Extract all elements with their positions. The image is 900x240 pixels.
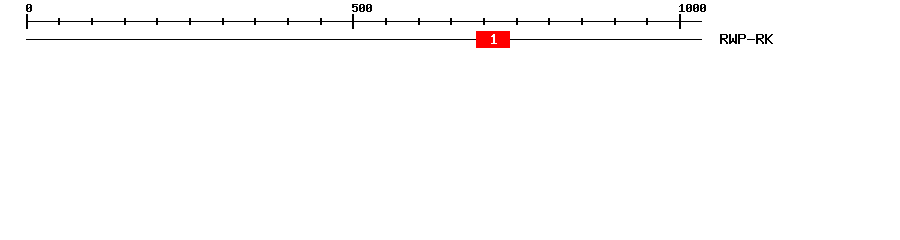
- ruler label 1000: [679, 4, 706, 12]
- ruler major tick 0: [26, 14, 28, 29]
- ruler minor tick 300: [222, 18, 224, 25]
- domain box number 1: [491, 34, 497, 44]
- ruler minor tick 950: [646, 18, 648, 25]
- background: [0, 0, 900, 58]
- ruler minor tick 250: [189, 18, 191, 25]
- ruler major tick 500: [352, 14, 354, 29]
- sequence line left segment: [26, 39, 476, 40]
- ruler label 500: [352, 4, 372, 12]
- domain box RWP-RK (match 1): [476, 31, 510, 48]
- sequence line right segment: [510, 39, 702, 40]
- ruler minor tick 850: [581, 18, 583, 25]
- ruler label 0: [26, 4, 32, 12]
- ruler minor tick 700: [483, 18, 485, 25]
- ruler minor tick 350: [254, 18, 256, 25]
- ruler minor tick 200: [156, 18, 158, 25]
- ruler minor tick 150: [124, 18, 126, 25]
- ruler minor tick 50: [58, 18, 60, 25]
- ruler minor tick 750: [516, 18, 518, 25]
- ruler minor tick 550: [385, 18, 387, 25]
- ruler minor tick 900: [614, 18, 616, 25]
- domain name label RWP-RK: [720, 34, 773, 44]
- ruler major tick 1000: [679, 14, 681, 29]
- ruler axis line 0-1034: [26, 21, 702, 22]
- ruler minor tick 600: [418, 18, 420, 25]
- ruler minor tick 450: [320, 18, 322, 25]
- ruler minor tick 800: [548, 18, 550, 25]
- ruler minor tick 650: [450, 18, 452, 25]
- ruler minor tick 400: [287, 18, 289, 25]
- ruler minor tick 100: [91, 18, 93, 25]
